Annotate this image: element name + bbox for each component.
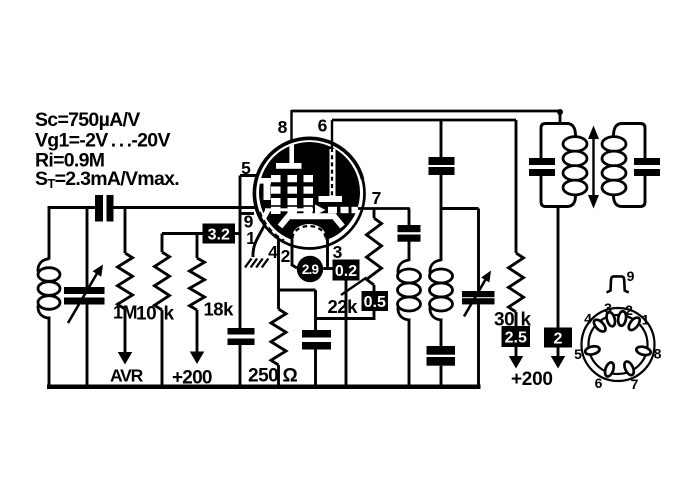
svg-text:Vg1=-2V . . .-20V: Vg1=-2V . . .-20V — [35, 130, 170, 152]
svg-text:ST=2.3mA/Vmax.: ST=2.3mA/Vmax. — [35, 168, 179, 191]
svg-text:k: k — [164, 304, 175, 325]
svg-text:7: 7 — [631, 376, 639, 392]
svg-text:9: 9 — [627, 268, 635, 284]
svg-text:2: 2 — [625, 302, 633, 318]
svg-text:Sc=750µA/V: Sc=750µA/V — [35, 109, 140, 131]
svg-text:1: 1 — [246, 228, 256, 248]
svg-text:2.5: 2.5 — [505, 329, 527, 346]
svg-text:4: 4 — [584, 311, 592, 327]
svg-text:+200: +200 — [172, 368, 212, 389]
svg-text:30: 30 — [494, 310, 514, 331]
svg-text:Ω: Ω — [283, 366, 298, 387]
svg-text:2: 2 — [554, 330, 563, 347]
svg-text:6: 6 — [318, 116, 328, 136]
svg-text:3: 3 — [604, 300, 612, 316]
svg-text:7: 7 — [372, 188, 382, 208]
svg-text:0.5: 0.5 — [364, 294, 386, 311]
svg-text:k: k — [521, 310, 532, 331]
svg-text:0.2: 0.2 — [335, 263, 357, 280]
svg-text:2.9: 2.9 — [302, 262, 319, 277]
svg-text:250: 250 — [248, 366, 278, 387]
svg-text:1: 1 — [642, 312, 650, 328]
svg-text:8: 8 — [654, 346, 662, 362]
svg-text:5: 5 — [241, 158, 251, 178]
svg-text:3: 3 — [333, 242, 343, 262]
svg-text:+200: +200 — [511, 369, 553, 390]
svg-text:6: 6 — [595, 375, 603, 391]
svg-text:22k: 22k — [328, 296, 359, 317]
svg-text:10: 10 — [136, 304, 156, 325]
svg-text:3.2: 3.2 — [208, 226, 230, 243]
svg-text:5: 5 — [574, 346, 582, 362]
svg-text:4: 4 — [268, 242, 278, 262]
svg-text:1M: 1M — [113, 303, 137, 323]
svg-text:8: 8 — [278, 117, 288, 137]
svg-text:AVR: AVR — [110, 366, 144, 386]
svg-text:18k: 18k — [204, 299, 235, 320]
svg-text:2: 2 — [281, 246, 291, 266]
